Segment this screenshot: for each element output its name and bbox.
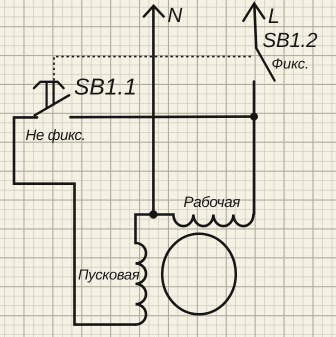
svg-text:Рабочая: Рабочая xyxy=(184,194,241,211)
wire top horizontal right of SB1.1 xyxy=(71,115,255,118)
motor rotor circle xyxy=(162,234,236,315)
dashed actuator link SB1.1-SB1.2 xyxy=(54,57,254,81)
switch SB1.1 blade xyxy=(35,95,70,115)
net N arrow xyxy=(144,6,164,215)
svg-text:Пусковая: Пусковая xyxy=(78,268,140,284)
junction node A dot xyxy=(149,210,157,218)
svg-text:SB1.1: SB1.1 xyxy=(74,73,137,99)
inductor start winding Пусковая xyxy=(136,243,147,325)
svg-text:Не фикс.: Не фикс. xyxy=(26,127,86,144)
inductor run winding Рабочая xyxy=(153,215,253,227)
wire left branch: contact to bottom of start winding xyxy=(14,117,136,324)
svg-text:Фикс.: Фикс. xyxy=(272,57,310,73)
svg-text:L: L xyxy=(268,5,280,28)
switch SB1.2 blade xyxy=(256,48,274,81)
net L arrow xyxy=(243,3,264,48)
svg-text:N: N xyxy=(168,4,183,27)
pushbutton SB1.1 cap xyxy=(34,82,64,88)
junction dot on L line xyxy=(250,113,258,121)
wire L lower segment xyxy=(253,82,256,215)
pushbutton SB1.1 stems xyxy=(47,82,54,108)
svg-text:SB1.2: SB1.2 xyxy=(263,29,319,52)
wire junction to start winding top xyxy=(136,215,154,244)
